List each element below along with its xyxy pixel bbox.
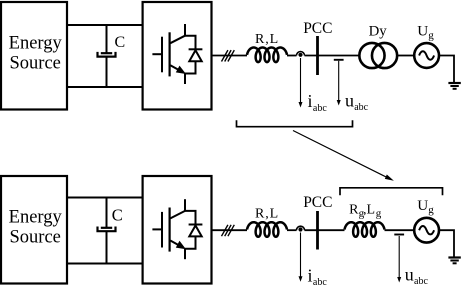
svg-text:abc: abc bbox=[313, 277, 327, 286]
svg-text:g: g bbox=[376, 208, 382, 220]
svg-text:Source: Source bbox=[10, 228, 61, 248]
svg-text:R,L: R,L bbox=[255, 32, 279, 47]
svg-text:Dy: Dy bbox=[369, 23, 388, 39]
svg-text:R: R bbox=[349, 202, 359, 217]
svg-text:i: i bbox=[308, 91, 313, 111]
svg-text:PCC: PCC bbox=[303, 194, 332, 211]
svg-text:Energy: Energy bbox=[9, 34, 63, 54]
svg-text:u: u bbox=[345, 91, 354, 111]
svg-text:abc: abc bbox=[414, 276, 428, 286]
svg-text:U: U bbox=[417, 197, 428, 214]
svg-text:g: g bbox=[428, 29, 434, 41]
svg-text:,L: ,L bbox=[363, 202, 375, 217]
svg-text:g: g bbox=[428, 204, 434, 216]
svg-text:C: C bbox=[112, 205, 123, 224]
svg-text:Source: Source bbox=[10, 54, 61, 74]
svg-text:C: C bbox=[115, 34, 126, 51]
svg-text:abc: abc bbox=[354, 102, 368, 113]
svg-text:R,L: R,L bbox=[255, 206, 279, 221]
svg-text:PCC: PCC bbox=[303, 20, 332, 37]
svg-text:Energy: Energy bbox=[9, 208, 63, 228]
svg-text:U: U bbox=[417, 23, 428, 40]
svg-text:u: u bbox=[405, 264, 414, 284]
svg-text:abc: abc bbox=[313, 103, 327, 114]
svg-text:i: i bbox=[308, 265, 313, 285]
